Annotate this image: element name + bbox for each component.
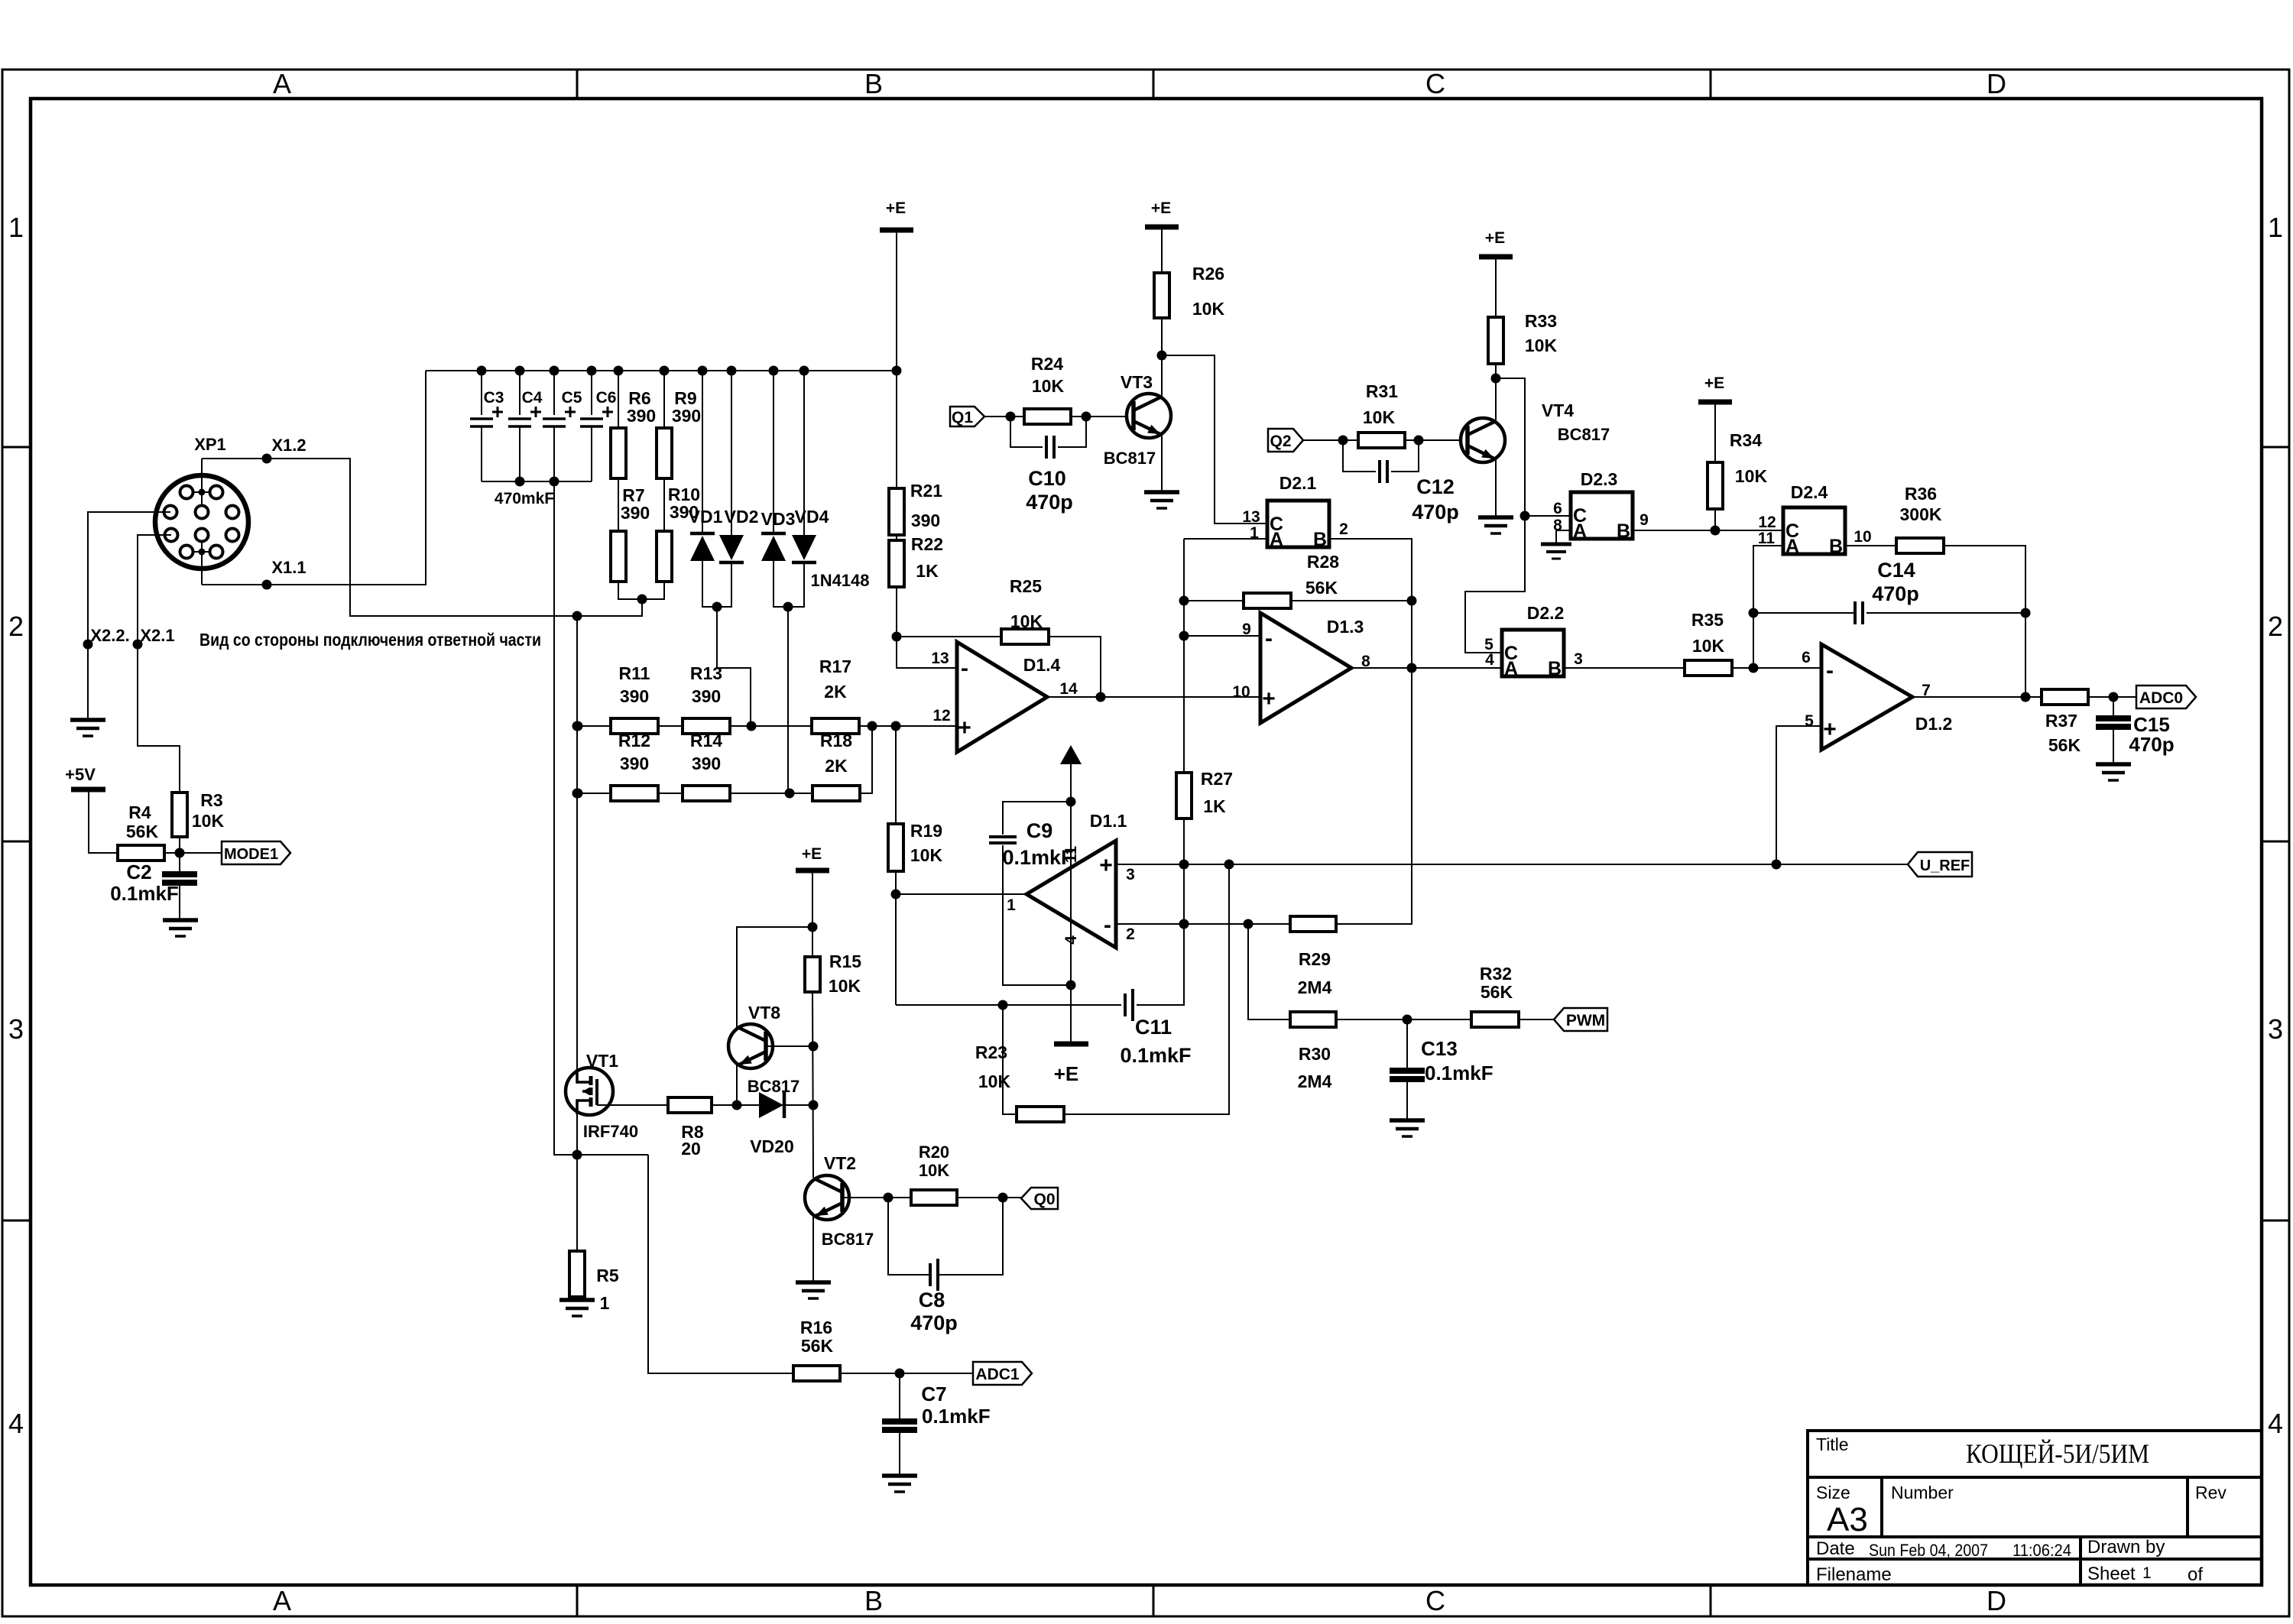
- svg-text:+: +: [958, 715, 971, 741]
- svg-text:10K: 10K: [192, 811, 225, 831]
- svg-text:2K: 2K: [824, 682, 847, 702]
- wire node to D1.4 pin13: [897, 637, 957, 668]
- resistor R32: [1471, 1012, 1519, 1027]
- svg-text:ADC0: ADC0: [2139, 689, 2183, 707]
- svg-text:C12: C12: [1416, 475, 1455, 498]
- ground C13: [1390, 1120, 1425, 1136]
- svg-text:9: 9: [1242, 621, 1251, 638]
- node X1.1: [262, 580, 272, 590]
- svg-text:B: B: [1829, 536, 1843, 557]
- svg-text:R12: R12: [618, 731, 650, 750]
- svg-text:+: +: [1823, 717, 1837, 742]
- svg-text:10: 10: [1854, 528, 1871, 546]
- svg-text:VD20: VD20: [750, 1136, 794, 1156]
- capacitor C11: [1125, 989, 1133, 1021]
- ground C15: [2096, 764, 2131, 780]
- svg-text:A: A: [273, 1585, 291, 1616]
- svg-text:VD4: VD4: [795, 507, 829, 527]
- resistor R34: [1708, 462, 1723, 509]
- wire D1.4 +in: [859, 725, 957, 727]
- wire VD12 to R13/R17 row: [717, 607, 751, 726]
- power +E rail: [880, 228, 913, 233]
- svg-text:10K: 10K: [1192, 299, 1225, 319]
- svg-text:A: A: [1270, 529, 1283, 550]
- transistor VT2 BC817: [805, 1175, 849, 1220]
- wire D2.4.A loop: [1753, 546, 1783, 668]
- svg-text:2M4: 2M4: [1298, 1071, 1332, 1091]
- svg-text:470p: 470p: [2129, 733, 2174, 756]
- svg-text:0.1mkF: 0.1mkF: [1425, 1062, 1494, 1084]
- svg-text:+E: +E: [1704, 374, 1724, 392]
- svg-text:R33: R33: [1525, 311, 1557, 331]
- node D1.3 -in: [1179, 631, 1189, 641]
- svg-text:300K: 300K: [1900, 504, 1942, 524]
- svg-text:BC817: BC817: [1558, 425, 1610, 444]
- svg-text:-: -: [1104, 912, 1111, 938]
- op-amp D1.2: [1821, 644, 1912, 750]
- tag Q0: [1021, 1188, 1058, 1209]
- svg-text:+E: +E: [802, 845, 822, 863]
- svg-text:D1.4: D1.4: [1023, 655, 1061, 675]
- node ADC1: [895, 1369, 905, 1379]
- resistor R30: [1290, 1012, 1336, 1027]
- node R35/D2.4A: [1749, 663, 1759, 673]
- node VT8 base / R15: [809, 1042, 819, 1052]
- svg-text:5: 5: [1805, 712, 1814, 730]
- svg-text:1K: 1K: [1203, 796, 1226, 816]
- svg-text:390: 390: [620, 686, 649, 706]
- node D1.2 +in: [1772, 860, 1782, 870]
- svg-text:+5V: +5V: [65, 765, 96, 784]
- gate D2.3: [1571, 492, 1633, 539]
- resistor R36: [1896, 538, 1944, 553]
- svg-text:C4: C4: [522, 389, 543, 407]
- svg-text:U_REF: U_REF: [1920, 857, 1970, 874]
- svg-text:R19: R19: [910, 821, 942, 841]
- gate D2.4: [1783, 507, 1845, 554]
- node R22/R25: [892, 632, 902, 642]
- svg-text:X2.1: X2.1: [140, 626, 174, 645]
- wire R30 to R32: [1336, 1019, 1471, 1020]
- svg-text:R11: R11: [619, 663, 650, 683]
- svg-text:C9: C9: [1026, 819, 1053, 842]
- tag Q1: [950, 407, 984, 426]
- svg-text:470p: 470p: [1872, 582, 1919, 605]
- resistor R13: [683, 718, 730, 734]
- node R14/R18: [785, 789, 795, 799]
- capacitor C2: [179, 853, 180, 874]
- wire X1.2 net: [201, 459, 203, 514]
- wire D1.4 output to D1.3: [1047, 696, 1260, 698]
- wire VT2 base: [842, 1197, 911, 1198]
- svg-text:R14: R14: [690, 731, 722, 750]
- svg-text:-: -: [1826, 658, 1834, 683]
- node C14 right: [2021, 608, 2031, 618]
- wire D1.3 out: [1351, 667, 1502, 669]
- node R19 top: [891, 721, 901, 731]
- zone dividers left/right: [2, 446, 31, 449]
- resistor R29: [1290, 916, 1336, 932]
- wire X1.1 net: [201, 535, 203, 585]
- svg-text:1: 1: [2268, 212, 2283, 243]
- svg-text:R27: R27: [1201, 769, 1233, 789]
- diode VD4: [803, 371, 805, 535]
- wire R37 to ADC0: [2088, 696, 2136, 698]
- svg-text:C8: C8: [919, 1289, 945, 1311]
- svg-text:Title: Title: [1816, 1434, 1849, 1454]
- resistor R25: [1001, 629, 1049, 644]
- svg-text:Sun Feb 04, 2007: Sun Feb 04, 2007: [1869, 1541, 1988, 1560]
- node VT1 source: [572, 1150, 582, 1160]
- power +E R34: [1698, 400, 1732, 405]
- svg-text:+: +: [1262, 686, 1276, 712]
- svg-text:D: D: [1987, 68, 2006, 99]
- svg-text:X1.2: X1.2: [271, 436, 306, 455]
- capacitor C4: [519, 371, 521, 415]
- node D2.3 C: [1520, 511, 1530, 521]
- wire D2.2 out to R35: [1564, 667, 1685, 669]
- svg-text:Sheet: Sheet: [2087, 1564, 2136, 1584]
- resistor R27: [1176, 773, 1192, 818]
- svg-text:R5: R5: [596, 1266, 619, 1285]
- capacitor C10: [1010, 417, 1043, 447]
- svg-text:B: B: [1313, 529, 1327, 550]
- resistor R3: [172, 793, 187, 837]
- svg-text:2M4: 2M4: [1298, 977, 1332, 997]
- svg-text:+E: +E: [1054, 1062, 1079, 1085]
- svg-text:6: 6: [1802, 649, 1811, 666]
- tag ADC0: [2136, 686, 2196, 708]
- svg-text:1K: 1K: [916, 561, 939, 581]
- resistor R15: [805, 957, 820, 992]
- wire VT8 base: [766, 1045, 813, 1047]
- node coil: [572, 611, 582, 621]
- resistor R24: [1024, 409, 1071, 424]
- node C9/R23 branch: [998, 1000, 1008, 1010]
- svg-text:R31: R31: [1366, 381, 1398, 401]
- svg-text:4: 4: [1485, 651, 1494, 669]
- wire VD3/VD4 join: [774, 561, 804, 607]
- node R28 right: [1407, 596, 1417, 606]
- svg-text:+: +: [1099, 853, 1113, 878]
- capacitor C7: [899, 1373, 900, 1421]
- wire VT4 node to D2.3: [1496, 378, 1571, 516]
- resistor R23: [1017, 1107, 1064, 1122]
- power +E VT3: [1145, 225, 1179, 230]
- svg-text:11:06:24: 11:06:24: [2012, 1541, 2071, 1560]
- svg-text:10K: 10K: [910, 845, 943, 865]
- wire R15 bottom chain: [812, 992, 813, 1178]
- resistor R31: [1358, 433, 1405, 448]
- wire D1.1 output: [896, 893, 1026, 895]
- wire VT8 emitter: [736, 1064, 738, 1105]
- svg-text:Size: Size: [1816, 1483, 1850, 1502]
- node VD12: [712, 602, 722, 612]
- svg-text:R26: R26: [1192, 264, 1224, 284]
- wire C5 long vertical to VT1 source row: [554, 426, 648, 1155]
- transistor VT1 IRF740: [566, 1068, 613, 1115]
- wire VT3 emitter: [1161, 433, 1163, 492]
- capacitor C12: [1343, 440, 1376, 472]
- node R31 right: [1414, 436, 1424, 446]
- svg-text:C5: C5: [562, 389, 582, 407]
- svg-text:of: of: [2188, 1564, 2203, 1585]
- wire R22 bottom node: [896, 587, 897, 637]
- wire to D2.2 C: [1465, 516, 1525, 653]
- XP1 pins: [186, 491, 216, 493]
- svg-text:B: B: [864, 1585, 883, 1616]
- capacitor C15: [2113, 697, 2114, 718]
- svg-text:VD3: VD3: [761, 509, 796, 529]
- svg-text:R4: R4: [128, 802, 151, 822]
- svg-text:20: 20: [681, 1139, 701, 1159]
- diode VD2: [731, 371, 732, 535]
- resistor R8: [668, 1097, 712, 1113]
- svg-text:0.1mkF: 0.1mkF: [1002, 846, 1073, 869]
- svg-text:C6: C6: [596, 389, 617, 407]
- svg-text:12: 12: [932, 707, 950, 724]
- node VT4 collector: [1491, 374, 1501, 384]
- transistor VT4 BC817: [1461, 418, 1505, 462]
- resistor R20: [911, 1190, 957, 1205]
- wire R11 R13 R17 row: [578, 725, 611, 727]
- svg-text:D1.1: D1.1: [1090, 811, 1127, 831]
- tag U_REF: [1908, 852, 1972, 877]
- svg-text:4: 4: [2268, 1408, 2283, 1439]
- svg-text:XP1: XP1: [194, 435, 226, 454]
- wire R19 bottom to D1.1 out / C11: [895, 871, 897, 1005]
- svg-text:Drawn by: Drawn by: [2087, 1537, 2165, 1558]
- wire Q2 row: [1303, 439, 1358, 441]
- svg-text:C3: C3: [484, 389, 504, 407]
- svg-text:Filename: Filename: [1816, 1564, 1892, 1585]
- resistor R4: [118, 845, 164, 861]
- svg-text:A3: A3: [1827, 1501, 1868, 1538]
- svg-text:3: 3: [2268, 1013, 2283, 1045]
- svg-text:1: 1: [8, 212, 24, 243]
- gate D2.2: [1502, 630, 1564, 676]
- svg-text:ADC1: ADC1: [975, 1366, 1019, 1383]
- svg-text:-: -: [1265, 626, 1273, 651]
- gate D2.1: [1267, 501, 1329, 547]
- svg-text:1: 1: [600, 1293, 610, 1313]
- transistor VT8 BC817: [728, 1024, 773, 1068]
- svg-text:Q2: Q2: [1270, 433, 1291, 450]
- node rail/R21: [892, 366, 902, 376]
- wire D1.1 power vertical: [1070, 764, 1072, 1044]
- tag ADC1: [973, 1362, 1032, 1385]
- resistor R12: [611, 786, 658, 801]
- title block: [1808, 1431, 2262, 1585]
- svg-text:R25: R25: [1010, 576, 1042, 596]
- svg-text:D1.2: D1.2: [1915, 714, 1953, 734]
- wire R12 R14 R18 row: [578, 793, 611, 794]
- node R20 right: [998, 1193, 1008, 1203]
- wire D2.1.B vertical to R29: [1329, 539, 1412, 924]
- wire D1.2 out: [1912, 696, 2042, 698]
- svg-text:BC817: BC817: [748, 1077, 799, 1096]
- node C15: [2109, 692, 2119, 702]
- node X2.2: [83, 640, 93, 650]
- svg-text:A: A: [273, 68, 291, 99]
- svg-text:2: 2: [1339, 520, 1348, 538]
- wire node to R25: [897, 636, 1001, 637]
- node VD34: [783, 602, 793, 612]
- node X2.1: [133, 640, 143, 650]
- wire VT1 source row: [576, 1114, 578, 1155]
- wire +E down: [812, 870, 813, 957]
- resistor R14: [683, 786, 730, 801]
- svg-text:0.1mkF: 0.1mkF: [922, 1405, 991, 1428]
- svg-text:R36: R36: [1905, 484, 1937, 504]
- svg-text:0.1mkF: 0.1mkF: [110, 882, 179, 905]
- svg-text:56K: 56K: [1305, 578, 1338, 598]
- resistor R35: [1685, 660, 1732, 676]
- svg-text:MODE1: MODE1: [224, 846, 278, 863]
- svg-text:IRF740: IRF740: [583, 1122, 638, 1141]
- svg-text:56K: 56K: [2048, 735, 2081, 755]
- wire R33 to VT4: [1495, 364, 1497, 423]
- resistor R9: [663, 371, 665, 428]
- wire to R16: [648, 1155, 793, 1373]
- node VT2 base: [884, 1193, 894, 1203]
- diode VD3: [773, 371, 774, 533]
- node C14 left: [1749, 608, 1759, 618]
- svg-text:3: 3: [8, 1013, 24, 1045]
- svg-text:D2.3: D2.3: [1581, 469, 1618, 489]
- svg-text:4: 4: [8, 1408, 24, 1439]
- node R28 left: [1179, 596, 1189, 606]
- node R8/VT8: [732, 1100, 742, 1110]
- node R24 right: [1082, 412, 1091, 422]
- svg-text:Q1: Q1: [952, 409, 973, 426]
- integrator vertical net: [1183, 539, 1185, 773]
- svg-text:R28: R28: [1307, 552, 1339, 572]
- svg-text:10K: 10K: [919, 1161, 949, 1180]
- svg-text:B: B: [1617, 520, 1630, 542]
- ground VT3: [1144, 492, 1179, 508]
- svg-text:A: A: [1573, 520, 1587, 542]
- svg-text:C7: C7: [921, 1383, 946, 1405]
- svg-text:+E: +E: [1485, 229, 1505, 247]
- svg-text:Date: Date: [1816, 1538, 1855, 1559]
- wire R26 to VT3 collector: [1161, 318, 1163, 398]
- svg-text:D2.1: D2.1: [1279, 473, 1317, 493]
- node C13: [1403, 1015, 1412, 1025]
- svg-text:11: 11: [1758, 530, 1776, 547]
- svg-text:R37: R37: [2045, 711, 2077, 731]
- node R17 right: [868, 721, 877, 731]
- svg-text:VT1: VT1: [586, 1051, 618, 1071]
- wire R32 to PWM: [1519, 1019, 1564, 1020]
- node C3 rail: [477, 366, 487, 376]
- wire X2.2: [88, 512, 170, 644]
- svg-text:9: 9: [1639, 511, 1649, 529]
- svg-text:470p: 470p: [1026, 491, 1073, 514]
- wire to VT8 collector: [737, 927, 812, 1029]
- power +E VT4: [1479, 254, 1513, 260]
- svg-text:BC817: BC817: [822, 1230, 874, 1249]
- resistor R7: [618, 478, 619, 531]
- capacitor C6: [591, 371, 592, 415]
- wire D2.1.A: [1184, 538, 1267, 540]
- power arrow D1.1: [1060, 745, 1082, 764]
- svg-text:3: 3: [1126, 866, 1135, 883]
- resistor R26: [1154, 273, 1169, 318]
- capacitor C13: [1406, 1019, 1408, 1071]
- svg-text:VT4: VT4: [1542, 400, 1574, 420]
- resistor R11: [611, 718, 658, 734]
- svg-text:13: 13: [931, 650, 949, 667]
- svg-text:C11: C11: [1135, 1016, 1172, 1039]
- ground C2: [163, 920, 198, 936]
- wire D1.1 -in row: [1116, 923, 1290, 925]
- wire caps bottom rail: [482, 481, 592, 482]
- svg-text:470p: 470p: [1412, 501, 1459, 524]
- wire collector to D2.1 pin13: [1162, 355, 1267, 524]
- svg-text:R16: R16: [800, 1318, 832, 1337]
- svg-text:10: 10: [1232, 683, 1250, 701]
- svg-text:C14: C14: [1877, 559, 1915, 582]
- node D1.4 out: [1096, 692, 1106, 702]
- tag MODE1: [222, 841, 290, 864]
- resistor R16: [793, 1366, 840, 1381]
- wire +E to R33: [1495, 257, 1497, 317]
- ground C7: [882, 1476, 917, 1492]
- node VD20/R15: [809, 1100, 819, 1110]
- wire top rail +E: [426, 370, 897, 371]
- svg-text:D: D: [1987, 1585, 2006, 1616]
- op-amp D1.1: [1026, 841, 1116, 948]
- wire D2.3 output: [1633, 530, 1783, 531]
- wire R35 to D1.2: [1732, 667, 1821, 669]
- svg-text:R23: R23: [975, 1042, 1007, 1062]
- svg-text:1: 1: [1007, 896, 1016, 914]
- svg-text:R30: R30: [1299, 1044, 1331, 1064]
- wire Q1 row: [984, 416, 1024, 417]
- svg-text:1: 1: [2142, 1564, 2152, 1582]
- node R30 branch: [1244, 919, 1254, 929]
- svg-text:10K: 10K: [1032, 376, 1065, 396]
- ground R5: [559, 1300, 595, 1316]
- svg-text:2K: 2K: [825, 756, 848, 776]
- svg-text:PWM: PWM: [1566, 1012, 1605, 1029]
- svg-text:390: 390: [620, 754, 649, 773]
- svg-text:2: 2: [8, 611, 24, 642]
- svg-text:R3: R3: [200, 790, 222, 810]
- node D1.1 out: [891, 890, 901, 900]
- wire R23 right up to UREF row: [1064, 864, 1229, 1114]
- svg-text:56K: 56K: [1481, 982, 1513, 1002]
- svg-text:13: 13: [1242, 508, 1260, 526]
- svg-text:0.1mkF: 0.1mkF: [1120, 1044, 1191, 1067]
- op-amp D1.3: [1260, 613, 1351, 723]
- svg-text:R24: R24: [1031, 354, 1063, 374]
- svg-text:390: 390: [672, 406, 701, 426]
- svg-text:R22: R22: [911, 534, 943, 554]
- node C5 bottom: [550, 477, 559, 487]
- svg-text:C13: C13: [1421, 1037, 1458, 1060]
- svg-text:470p: 470p: [910, 1311, 958, 1334]
- node VT3 collector: [1157, 351, 1167, 361]
- wire VD34 to R14/R18 row: [787, 607, 789, 793]
- XP1 connector: [155, 475, 248, 569]
- svg-text:C: C: [1425, 1585, 1445, 1616]
- node R11 left: [573, 721, 583, 731]
- svg-text:VT2: VT2: [824, 1153, 856, 1173]
- svg-text:10K: 10K: [1692, 636, 1725, 656]
- tag PWM: [1554, 1008, 1607, 1031]
